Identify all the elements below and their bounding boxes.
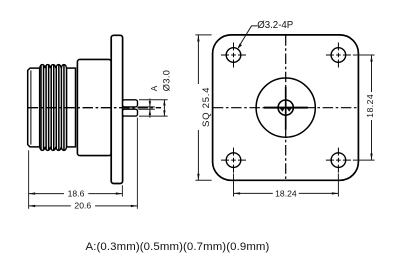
solder tab lower bbox=[123, 109, 138, 116]
dimension 18.24 right side bbox=[353, 55, 375, 160]
nut front rim bbox=[67, 68, 76, 147]
dimension 18.24 bottom bbox=[234, 174, 339, 197]
dimension 18.6 bbox=[29, 192, 123, 194]
horizontal centerline front view bbox=[213, 107, 358, 109]
svg-text:A:(0.3mm)(0.5mm)(0.7mm)(0.9mm): A:(0.3mm)(0.5mm)(0.7mm)(0.9mm) bbox=[86, 241, 270, 253]
mounting hole top-right bbox=[326, 43, 351, 68]
extension line nut back bbox=[28, 150, 30, 209]
svg-text:Ø3.2-4P: Ø3.2-4P bbox=[257, 20, 293, 31]
svg-text:18.24: 18.24 bbox=[275, 188, 297, 198]
mounting hole bottom-right bbox=[326, 148, 351, 173]
solder tab upper bbox=[123, 100, 138, 107]
dimension diameter 3.0 bbox=[139, 100, 168, 116]
center circle small bbox=[278, 100, 293, 115]
extension line flange bottom right bbox=[121, 185, 123, 196]
nut threads bbox=[40, 62, 67, 153]
mounting hole top-left bbox=[221, 43, 246, 68]
contact slot marks bbox=[280, 108, 292, 111]
connector body barrel bbox=[77, 59, 111, 155]
svg-text:20.6: 20.6 bbox=[74, 201, 91, 211]
svg-text:Ø3.0: Ø3.0 bbox=[161, 70, 171, 92]
dimension SQ 25.4 bbox=[195, 35, 211, 180]
svg-text:A: A bbox=[150, 85, 159, 91]
center circle large bbox=[256, 78, 315, 137]
svg-text:SQ 25.4: SQ 25.4 bbox=[201, 87, 212, 127]
flange plate front view square bbox=[213, 35, 359, 180]
coupling nut back section bbox=[28, 68, 40, 147]
center crosshair bbox=[264, 87, 308, 130]
dimension 20.6 bbox=[29, 205, 138, 207]
flange side view bbox=[111, 35, 122, 183]
centerline left view bbox=[28, 107, 161, 109]
leader line hole callout bbox=[237, 26, 257, 49]
mounting hole bottom-left bbox=[221, 148, 246, 173]
vertical centerline front view bbox=[285, 35, 287, 180]
extension line solder tab end bbox=[136, 118, 138, 209]
dimension A bbox=[138, 99, 155, 118]
svg-text:18.24: 18.24 bbox=[365, 94, 375, 118]
svg-text:18.6: 18.6 bbox=[68, 188, 85, 198]
